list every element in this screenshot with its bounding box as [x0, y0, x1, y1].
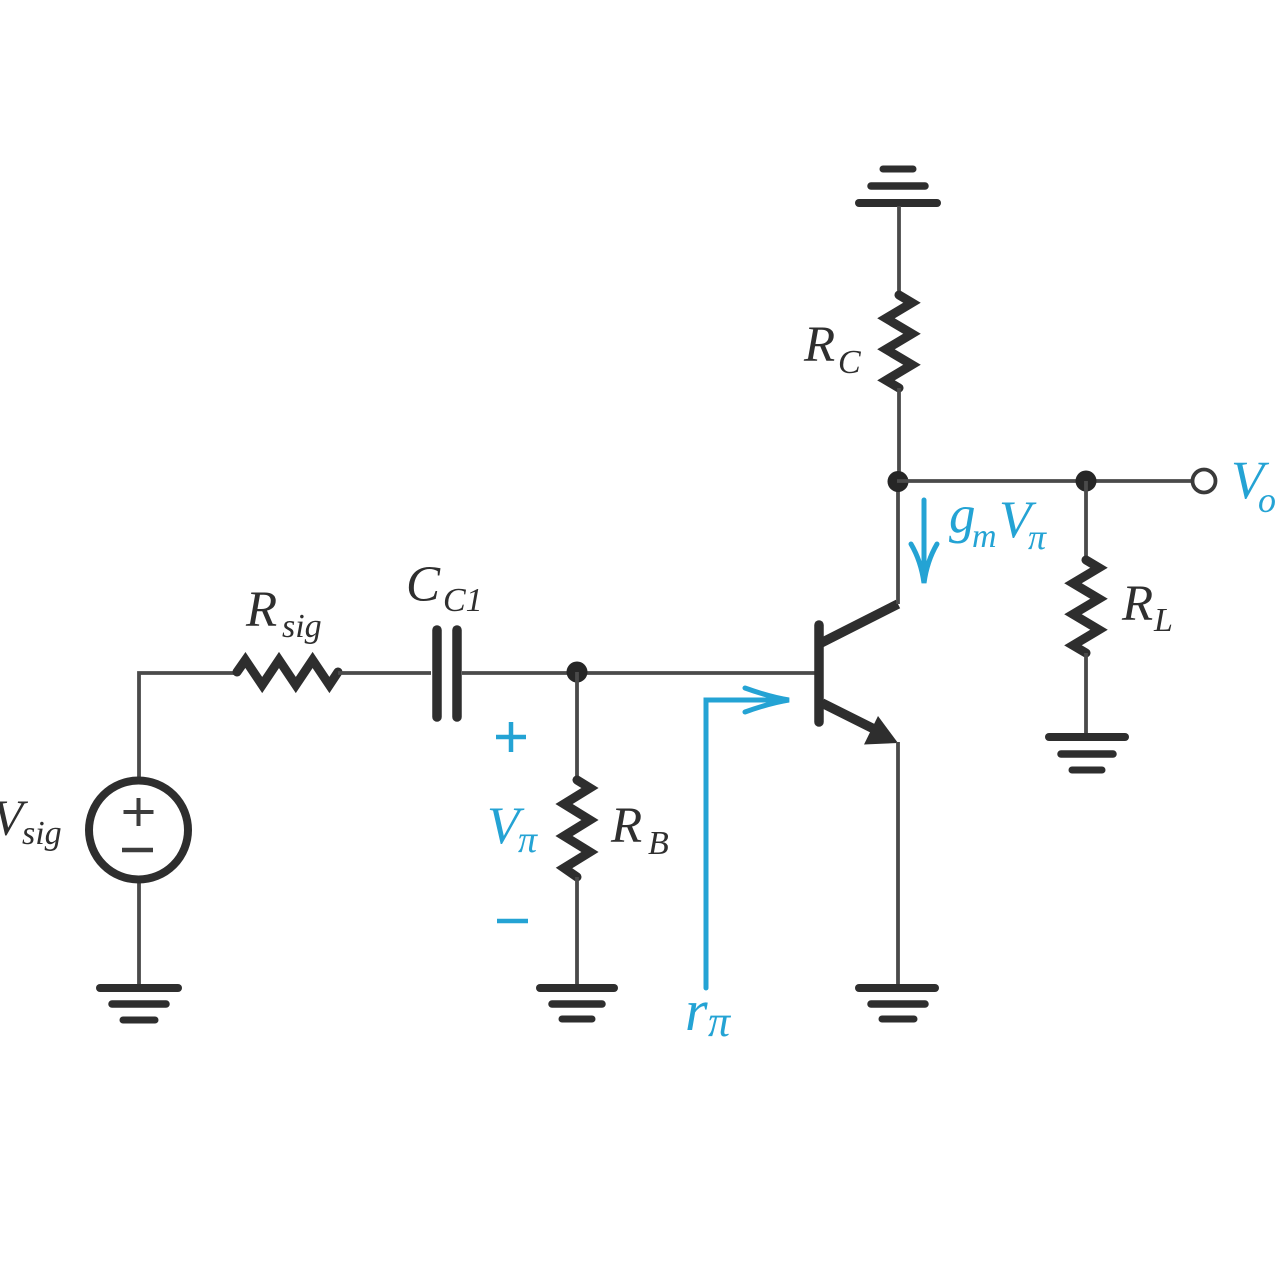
svg-text:C: C	[406, 557, 441, 613]
label Vo	[1231, 450, 1276, 520]
svg-text:sig: sig	[22, 815, 62, 852]
label RB	[610, 798, 669, 862]
transistor Q1	[819, 604, 898, 745]
wire RB to ground	[575, 877, 579, 986]
svg-text:R: R	[1121, 576, 1153, 632]
svg-text:C: C	[838, 344, 861, 381]
wire output	[897, 479, 1193, 483]
resistor Rsig	[237, 660, 338, 685]
label RL	[1121, 576, 1173, 639]
svg-text:m: m	[972, 518, 997, 555]
capacitor CC1	[437, 630, 457, 717]
output terminal Vo	[1193, 470, 1216, 493]
svg-text:R: R	[803, 317, 835, 373]
resistor RL	[1073, 560, 1099, 653]
arrow r_pi	[706, 688, 789, 988]
ground at RB	[540, 988, 614, 1019]
svg-text:R: R	[245, 582, 277, 638]
label gmVpi	[949, 486, 1047, 557]
svg-text:sig: sig	[282, 608, 322, 645]
resistor RB	[564, 780, 590, 877]
node collector	[888, 471, 909, 492]
wire node to RB	[575, 672, 579, 782]
wire Vsig bottom to ground	[137, 883, 141, 986]
label RC	[803, 317, 861, 381]
wire Rsig to CC1	[338, 671, 431, 675]
label plus Vpi	[496, 722, 526, 752]
arrow gmVpi	[911, 500, 937, 583]
svg-text:B: B	[648, 825, 669, 862]
ground at RL	[1049, 737, 1125, 770]
node RL junction	[1076, 471, 1097, 492]
label Rsig	[245, 582, 322, 645]
svg-text:r: r	[685, 978, 708, 1043]
resistor RC	[886, 295, 912, 388]
ground at emitter	[859, 988, 935, 1019]
label r_pi	[685, 978, 732, 1046]
label Vpi	[487, 797, 538, 861]
label Vsig	[0, 791, 62, 852]
wire RC to collector node	[897, 388, 901, 481]
voltage source Vsig	[89, 781, 188, 880]
svg-text:C1: C1	[443, 582, 483, 619]
node A (base node)	[567, 662, 588, 683]
wire CC1 to transistor base	[462, 671, 815, 675]
supply ground above RC	[859, 169, 937, 203]
svg-text:o: o	[1258, 480, 1276, 520]
label CC1	[406, 557, 483, 619]
svg-text:π: π	[708, 997, 732, 1046]
wire collector up to node	[896, 481, 900, 604]
svg-text:R: R	[610, 798, 642, 854]
wire from Vsig top to Rsig	[139, 673, 237, 778]
label minus Vpi	[497, 919, 528, 924]
svg-text:L: L	[1153, 602, 1173, 639]
wire emitter down to ground	[896, 742, 900, 987]
svg-text:π: π	[1028, 517, 1047, 557]
wire supply ground to RC	[897, 206, 901, 295]
svg-text:π: π	[518, 819, 538, 861]
ground at Vsig	[100, 988, 178, 1020]
wire node to RL	[1084, 481, 1088, 560]
wire RL to ground	[1084, 653, 1088, 733]
